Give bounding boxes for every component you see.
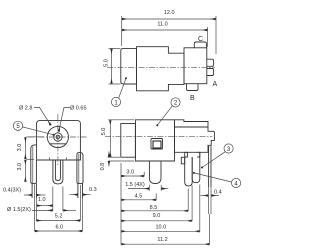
dim 5.0 (side left): [101, 120, 134, 157]
dim 8.5 (side): [121, 189, 188, 212]
dim 12.0 line: [122, 10, 216, 54]
svg-text:3.0: 3.0: [17, 144, 23, 152]
svg-text:3.0: 3.0: [17, 163, 23, 171]
dim 5.2: [36, 185, 80, 221]
svg-text:10.0: 10.0: [155, 225, 166, 231]
svg-text:11.2: 11.2: [157, 237, 167, 243]
svg-text:3.0: 3.0: [126, 170, 134, 176]
dim 1.5 (4X) (side): [125, 182, 168, 191]
svg-text:A: A: [213, 81, 218, 88]
pin A lower (top view): [207, 69, 214, 76]
rear pin U1: [185, 152, 193, 186]
dim Ø2.8 leader: [19, 106, 51, 126]
svg-text:4.5: 4.5: [135, 194, 143, 200]
dim 11.0 line: [122, 21, 208, 47]
tab B (top view): [187, 84, 199, 91]
balloon 4: [193, 172, 241, 188]
window outer: [151, 139, 163, 150]
right block (top view): [184, 48, 207, 84]
dim 9.0 (side): [121, 186, 192, 222]
svg-text:0.4: 0.4: [214, 190, 222, 196]
svg-text:C: C: [198, 36, 203, 43]
pin block left tab: [181, 157, 184, 164]
balloon 2: [156, 98, 180, 126]
svg-text:9.0: 9.0: [153, 213, 161, 219]
center pin (front): [53, 160, 63, 184]
window inner: [153, 141, 161, 148]
balloon 1: [111, 77, 127, 106]
svg-text:8.5: 8.5: [150, 205, 158, 211]
main body (side): [135, 120, 174, 161]
balloon 5: [13, 121, 54, 136]
svg-text:1.5 (4X): 1.5 (4X): [125, 182, 145, 188]
rear pin block (side): [185, 152, 200, 157]
pin A upper (top view): [207, 59, 214, 66]
barrel (side): [121, 124, 136, 158]
svg-text:Ø 1.5(2X): Ø 1.5(2X): [7, 207, 31, 213]
balloon 3: [201, 144, 233, 169]
right leg (front): [77, 153, 83, 184]
jack pin circle: [56, 135, 60, 139]
left leg tip: [31, 183, 33, 198]
svg-text:1.0: 1.0: [38, 197, 46, 203]
dim 3.0/3.0 (front left): [17, 137, 44, 182]
chord flat: [50, 143, 66, 145]
svg-text:11.0: 11.0: [157, 21, 167, 27]
svg-text:0.8: 0.8: [100, 163, 106, 171]
svg-text:0.4(3X): 0.4(3X): [3, 188, 21, 194]
rear pin U2: [192, 152, 200, 182]
svg-text:5.2: 5.2: [55, 213, 63, 219]
dim 10.0 (side): [121, 185, 199, 232]
svg-text:6.0: 6.0: [55, 224, 63, 230]
left leg (front): [31, 145, 37, 184]
dim 0.4 (side right): [201, 190, 222, 196]
dim 1.0: [37, 197, 53, 205]
svg-text:5.0: 5.0: [103, 59, 109, 67]
dim 0.3: [70, 187, 97, 195]
centerline horiz (front): [28, 136, 88, 138]
tab C (top view): [194, 42, 206, 48]
dim 5.0 (top view left): [103, 48, 120, 84]
dim 11.2 (side): [121, 214, 209, 245]
dim 4.5 (side): [121, 194, 156, 201]
centerline (top view): [107, 67, 215, 69]
pin extension lines: [52, 187, 54, 212]
jack mid circle: [54, 133, 62, 141]
dim 6.0: [35, 185, 83, 232]
jack outer circle: [47, 126, 68, 147]
centerline (side): [105, 135, 212, 137]
svg-text:Ø 2.8: Ø 2.8: [19, 106, 32, 112]
dim Ø0.65 leader: [59, 106, 87, 132]
thin rear pin: [208, 146, 210, 187]
dim 3.0 (side): [121, 170, 144, 177]
main body (top view): [137, 47, 185, 91]
barrel (top view): [121, 48, 137, 84]
svg-text:12.0: 12.0: [164, 10, 175, 16]
left extension line x121: [120, 163, 122, 245]
svg-text:Ø 0.65: Ø 0.65: [70, 106, 87, 112]
svg-text:B: B: [190, 95, 195, 102]
right leg tip: [77, 183, 79, 198]
centerline vert (front): [57, 114, 59, 165]
dim 0.4(3X): [3, 188, 46, 196]
svg-text:0.3: 0.3: [89, 187, 97, 193]
dim Ø1.5(2X): [7, 207, 76, 213]
dim 0.8 (side left): [100, 152, 134, 171]
right block (side): [175, 120, 215, 153]
bore edge ticks: [48, 157, 50, 160]
body: [37, 121, 81, 160]
front leg (side): [149, 161, 161, 184]
svg-text:5.0: 5.0: [101, 128, 107, 136]
